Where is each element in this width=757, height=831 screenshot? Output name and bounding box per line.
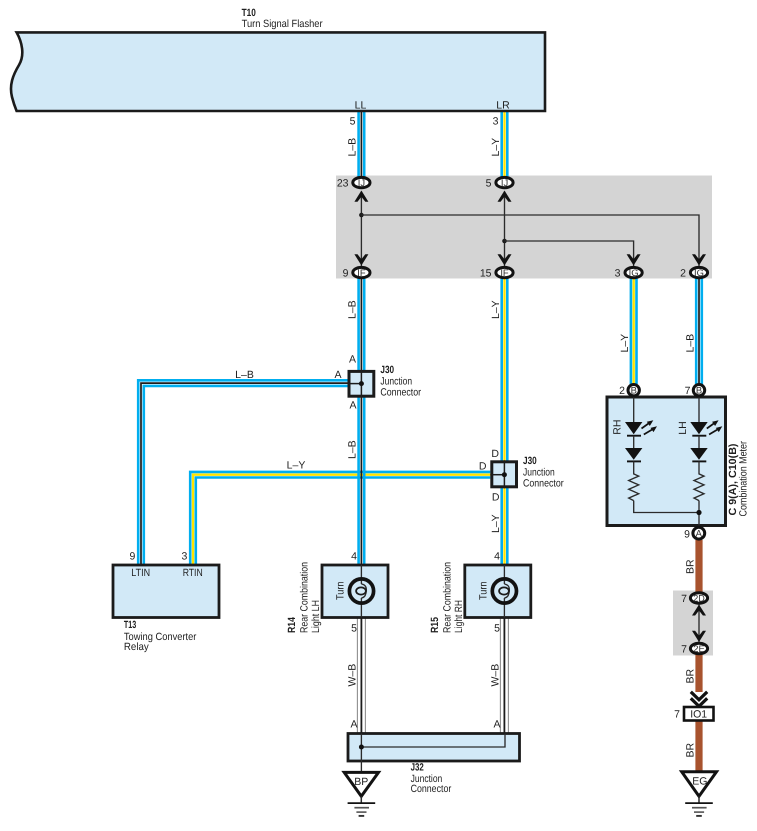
junction connector J30 (D) <box>492 462 517 487</box>
label T13 bold <box>124 619 136 631</box>
label Turn Signal Flasher <box>242 18 323 30</box>
wire: link across to 3IG <box>505 241 634 266</box>
connector IF pin9 <box>353 267 370 278</box>
pin 2 label <box>680 268 686 280</box>
svg-text:IF: IF <box>500 267 509 278</box>
svg-text:7: 7 <box>681 644 687 656</box>
pin 3 of T10 <box>493 116 499 128</box>
wire W-B from R14 pin5 to J32 <box>357 618 365 734</box>
svg-text:Connector: Connector <box>523 478 564 490</box>
svg-text:IJ: IJ <box>501 177 508 188</box>
label BR lower <box>685 742 697 757</box>
svg-text:R15: R15 <box>429 617 441 633</box>
pin 7 label 2D <box>681 593 687 605</box>
svg-text:IF: IF <box>357 267 366 278</box>
pin 9 label <box>343 268 349 280</box>
svg-text:Light LH: Light LH <box>310 600 322 633</box>
label Relay <box>124 641 150 653</box>
label Junction J32 <box>411 773 443 785</box>
svg-text:2: 2 <box>680 268 686 280</box>
pin A below J30 <box>349 400 356 412</box>
svg-text:5: 5 <box>486 178 492 190</box>
label Connector J32 <box>411 783 452 795</box>
svg-text:BR: BR <box>685 742 697 757</box>
pin 9 of T13 <box>129 551 135 563</box>
label L-B horizontal branch <box>235 369 254 381</box>
svg-text:R14: R14 <box>286 617 298 633</box>
svg-text:2E: 2E <box>693 643 705 654</box>
svg-text:LTIN: LTIN <box>131 567 150 579</box>
label J30 D bold <box>523 455 537 467</box>
label RH rotated <box>612 420 624 435</box>
svg-text:23: 23 <box>337 178 349 190</box>
svg-text:T13: T13 <box>124 619 136 631</box>
internal link in J30 D <box>490 474 504 476</box>
svg-text:4: 4 <box>351 551 357 563</box>
svg-text:L–B: L–B <box>347 300 359 319</box>
gray junction-block region IJ/IF/IG <box>336 176 712 279</box>
pin 5 R15 <box>494 623 500 635</box>
pin 9 label A <box>684 529 690 541</box>
pin D left of J30 <box>479 461 487 473</box>
pin 4 R14 <box>351 551 357 563</box>
arrow down into IG 3 <box>627 254 641 265</box>
wire: internal link 23IJ to 9IF <box>360 192 362 267</box>
connector IJ pin23 <box>353 177 370 188</box>
svg-text:9: 9 <box>129 551 135 563</box>
svg-text:Rear Combination: Rear Combination <box>442 562 454 633</box>
pin 2 label B <box>619 385 625 397</box>
svg-text:3: 3 <box>493 116 499 128</box>
label Light LH rotated <box>310 600 322 633</box>
wire BR from meter pin9 A to 2D <box>695 540 702 592</box>
svg-text:A: A <box>696 527 703 538</box>
svg-text:B: B <box>696 385 702 396</box>
arrow up into IJ 5 <box>498 191 512 202</box>
component T10 Turn Signal Flasher <box>11 32 545 111</box>
gray region 2D/2E <box>673 591 713 656</box>
ground BP stem and bars <box>348 796 376 816</box>
arrow down into IF 15 <box>498 254 512 265</box>
label L-Y wire 2 <box>490 138 502 157</box>
svg-text:L–Y: L–Y <box>490 514 502 533</box>
bulb lead top R14 <box>360 565 362 584</box>
node dot J32 <box>359 745 364 750</box>
wire L-Y from T10 pin3 LR to IJ <box>502 111 508 178</box>
svg-text:7: 7 <box>685 385 691 397</box>
svg-text:IJ: IJ <box>358 177 365 188</box>
svg-text:Connector: Connector <box>380 387 421 399</box>
wire L-B from 2IG to meter pin7 B <box>696 279 702 385</box>
pin LR of T10 <box>496 100 510 112</box>
internal wire through J30 D <box>503 460 505 488</box>
label BR upper <box>685 559 697 574</box>
wire L-Y from 15IF down to R15 pin4 <box>502 279 508 566</box>
label Junction D <box>523 467 555 479</box>
bulb lead bottom R14 <box>360 598 362 618</box>
svg-text:BR: BR <box>685 559 697 574</box>
bulb lead bottom R15 <box>503 598 505 618</box>
node dot J30 <box>359 381 364 386</box>
svg-text:L–Y: L–Y <box>490 300 502 319</box>
svg-text:2D: 2D <box>693 592 705 603</box>
pin 5 label <box>486 178 492 190</box>
svg-text:J30: J30 <box>380 364 394 376</box>
splice double chevron into IO1 <box>691 692 707 707</box>
svg-text:7: 7 <box>674 709 680 721</box>
pin 7 label B <box>685 385 691 397</box>
wire L-B branch from J30 to T13 LTIN <box>138 380 347 565</box>
svg-text:9: 9 <box>343 268 349 280</box>
component C9/C10 Combination Meter box <box>607 397 726 526</box>
label L-Y wire below IF15 <box>490 300 502 319</box>
svg-text:15: 15 <box>480 268 492 280</box>
svg-text:L–Y: L–Y <box>490 138 502 157</box>
svg-text:RH: RH <box>612 420 624 435</box>
node: junction dot on 5IJ line <box>502 239 507 244</box>
svg-text:Combination Meter: Combination Meter <box>737 441 749 517</box>
svg-text:IG: IG <box>694 267 704 278</box>
pin name LTIN <box>131 567 150 579</box>
svg-text:A: A <box>334 369 341 381</box>
pin 7 label 2E <box>681 644 687 656</box>
label W-B on R15 drop <box>490 664 502 687</box>
diode LH <box>690 436 707 462</box>
svg-text:W–B: W–B <box>347 664 359 687</box>
node dot meter <box>696 510 701 515</box>
svg-text:Connector: Connector <box>411 783 452 795</box>
svg-text:LL: LL <box>355 100 367 112</box>
LED RH indicator <box>625 420 657 435</box>
label L-B wire 1 <box>347 138 359 157</box>
svg-text:B: B <box>631 385 637 396</box>
LED LH indicator <box>690 420 722 435</box>
svg-text:A: A <box>350 719 357 731</box>
meter bottom link <box>634 501 699 526</box>
svg-text:5: 5 <box>351 623 357 635</box>
ground EG stem and bars <box>685 796 713 816</box>
wire L-Y from 3IG to meter pin2 B <box>631 279 637 385</box>
connector IG pin2 <box>690 267 707 278</box>
bulb filament loop R14 <box>356 584 366 598</box>
internal link J32 <box>361 734 505 748</box>
svg-text:Turn: Turn <box>334 581 346 600</box>
bulb lead top R15 <box>503 565 505 584</box>
svg-text:L–B: L–B <box>684 334 696 353</box>
pin 15 label <box>480 268 492 280</box>
pin 3 label <box>615 268 621 280</box>
wire link J32 to BP ground <box>360 747 362 772</box>
label BR middle <box>685 668 697 683</box>
wire L-Y branch from J30 to T13 RTIN <box>190 472 490 565</box>
pin 4 R15 <box>494 551 500 563</box>
svg-text:Relay: Relay <box>124 641 150 653</box>
pin 23 label <box>337 178 349 190</box>
wire BR from IO1 to EG ground <box>695 721 702 773</box>
svg-text:D: D <box>491 448 499 460</box>
diode RH <box>625 436 642 462</box>
pin 3 of T13 <box>181 551 187 563</box>
label Rear Combination rotated R15 <box>442 562 454 633</box>
wire: internal link 5IJ to 15IF <box>504 192 506 267</box>
svg-text:L–Y: L–Y <box>287 459 306 471</box>
label Junction <box>380 376 412 388</box>
connector IO1 <box>684 707 714 721</box>
svg-text:J32: J32 <box>411 762 424 774</box>
label L-Y wire below IG3 <box>619 334 631 353</box>
connector 2D <box>690 592 707 603</box>
svg-text:Turn: Turn <box>477 581 489 600</box>
label R14 rotated bold <box>286 617 298 633</box>
pin A above J30 <box>349 354 356 366</box>
connector IG pin3 <box>625 267 642 278</box>
svg-text:L–B: L–B <box>235 369 254 381</box>
svg-text:4: 4 <box>494 551 500 563</box>
label LH rotated <box>677 421 689 434</box>
resistor RH <box>629 461 639 500</box>
ground EG <box>682 772 717 797</box>
label Light RH rotated <box>453 600 465 633</box>
node dot J30 D <box>502 472 507 477</box>
node: junction dot on 23IJ line <box>359 213 364 218</box>
wire L-B from T10 pin5 LL to IJ <box>359 111 365 178</box>
junction connector J30 (A) <box>349 371 374 396</box>
arrow down into 2E <box>692 631 706 642</box>
label Turn R14 <box>334 581 346 600</box>
wire BR from 2E to IO1 <box>695 655 702 693</box>
ground BP <box>344 772 378 796</box>
label Towing Converter <box>124 631 197 643</box>
internal wire through J30 <box>360 370 362 398</box>
label L-B wire below IF9 <box>347 300 359 319</box>
svg-text:Rear Combination: Rear Combination <box>299 562 311 633</box>
svg-text:LH: LH <box>677 421 689 434</box>
label L-B wire below IG2 <box>684 334 696 353</box>
connector B pin7 <box>693 385 704 396</box>
connector A pin9 <box>693 527 705 539</box>
pin A right J32 <box>493 719 500 731</box>
label W-B on R14 drop <box>347 664 359 687</box>
label R15 rotated bold <box>429 617 441 633</box>
connector B pin2 <box>628 385 639 396</box>
svg-text:Light RH: Light RH <box>453 600 465 633</box>
pin A left J32 <box>350 719 357 731</box>
label L-Y below J30 D <box>490 514 502 533</box>
svg-text:L–B: L–B <box>347 138 359 157</box>
pin name RTIN <box>183 567 203 579</box>
svg-text:A: A <box>493 719 500 731</box>
pin D above J30 <box>491 448 499 460</box>
svg-text:3: 3 <box>181 551 187 563</box>
connector IJ pin5 <box>496 177 513 188</box>
component J32 Junction Connector <box>348 734 520 762</box>
pin D below J30 <box>492 492 500 504</box>
label J30 bold <box>380 364 394 376</box>
pin 5 of T10 <box>350 116 356 128</box>
svg-text:A: A <box>349 400 356 412</box>
label Combination Meter rotated <box>737 441 749 517</box>
bulb filament loop R15 <box>499 584 509 598</box>
svg-text:BR: BR <box>685 668 697 683</box>
pin LL of T10 <box>355 100 367 112</box>
resistor LH <box>694 461 704 500</box>
svg-text:5: 5 <box>494 623 500 635</box>
label L-Y horizontal branch <box>287 459 306 471</box>
component R15 Rear Combination Light RH <box>465 565 531 618</box>
svg-text:9: 9 <box>684 529 690 541</box>
svg-text:RTIN: RTIN <box>183 567 203 579</box>
svg-text:2: 2 <box>619 385 625 397</box>
internal link in J30 <box>348 383 362 385</box>
svg-text:D: D <box>492 492 500 504</box>
svg-text:5: 5 <box>350 116 356 128</box>
svg-text:Turn Signal Flasher: Turn Signal Flasher <box>242 18 323 30</box>
link 2D to 2E <box>698 605 700 643</box>
pin 7 label IO1 <box>674 709 680 721</box>
label J32 bold <box>411 762 424 774</box>
label Connector D <box>523 478 564 490</box>
svg-text:A: A <box>349 354 356 366</box>
component R14 Rear Combination Light LH <box>322 565 388 618</box>
label Turn R15 <box>477 581 489 600</box>
svg-text:IG: IG <box>629 267 639 278</box>
bulb circle R15 <box>492 579 516 603</box>
svg-text:BP: BP <box>354 776 368 788</box>
arrow up into IJ 23 <box>354 191 368 202</box>
meter internal lead left <box>633 397 635 422</box>
connector IF pin15 <box>496 267 513 278</box>
label Connector <box>380 387 421 399</box>
svg-text:W–B: W–B <box>490 664 502 687</box>
wire: link across to 2IG <box>361 215 699 266</box>
label L-B below J30 <box>347 440 359 459</box>
label C 9(A), C10(B) rotated bold <box>727 444 739 516</box>
svg-text:3: 3 <box>615 268 621 280</box>
arrow up into 2D <box>692 605 706 616</box>
svg-text:LR: LR <box>496 100 510 112</box>
label T10 <box>242 7 256 19</box>
component T13 Towing Converter Relay <box>113 565 219 618</box>
arrow down into IG 2 <box>692 254 706 265</box>
wire L-B from 9IF down to R14 pin4 <box>359 279 365 566</box>
wire W-B from R15 pin5 to J32 <box>500 618 508 734</box>
label Rear Combination rotated <box>299 562 311 633</box>
svg-text:L–B: L–B <box>347 440 359 459</box>
svg-text:D: D <box>479 461 487 473</box>
svg-text:L–Y: L–Y <box>619 334 631 353</box>
pin A left of J30 <box>334 369 341 381</box>
svg-text:7: 7 <box>681 593 687 605</box>
pin 5 R14 <box>351 623 357 635</box>
arrow down into IF 9 <box>354 254 368 265</box>
meter internal lead right <box>698 397 700 422</box>
svg-text:J30: J30 <box>523 455 537 467</box>
svg-text:EG: EG <box>692 776 707 788</box>
connector 2E <box>690 643 707 654</box>
svg-text:IO1: IO1 <box>690 709 707 721</box>
bulb circle R14 <box>349 579 373 603</box>
